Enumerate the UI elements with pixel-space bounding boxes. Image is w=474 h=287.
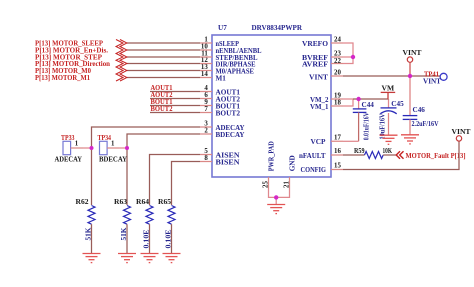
wire BOUT2 to pin 7 xyxy=(150,112,200,114)
svg-text:R62: R62 xyxy=(76,198,89,206)
svg-text:R64: R64 xyxy=(136,198,149,206)
wire BDECAY net from pin 2 down to R63 xyxy=(127,134,200,205)
resistor R65 xyxy=(168,206,175,254)
test point TP41 xyxy=(440,73,447,80)
wire AISEN net from pin 5 down to R64 xyxy=(150,155,201,206)
test point TP33 xyxy=(63,141,83,154)
svg-text:TP33: TP33 xyxy=(61,134,75,142)
svg-text:BDECAY: BDECAY xyxy=(216,131,246,139)
svg-text:51K: 51K xyxy=(86,227,93,241)
svg-text:DRV8834PWPR: DRV8834PWPR xyxy=(252,24,303,32)
svg-text:ADECAY: ADECAY xyxy=(55,155,83,163)
svg-text:VCP: VCP xyxy=(311,138,327,146)
svg-text:R59: R59 xyxy=(354,147,365,155)
svg-text:AVREF: AVREF xyxy=(302,60,329,68)
junction BDECAY/TP34 xyxy=(125,146,129,150)
wire R59 to off-page xyxy=(383,154,396,156)
svg-text:TP34: TP34 xyxy=(98,134,112,142)
svg-text:VINT: VINT xyxy=(423,77,441,85)
wire MOTOR_Direction to pin 12 xyxy=(127,63,200,65)
ground under R63 xyxy=(118,254,136,263)
junction VINT node xyxy=(408,74,412,78)
svg-text:BDECAY: BDECAY xyxy=(99,155,128,163)
wire BOUT1 to pin 9 xyxy=(150,105,200,107)
svg-text:17: 17 xyxy=(334,135,341,142)
svg-text:16: 16 xyxy=(334,148,341,155)
resistor R62 xyxy=(88,206,95,254)
svg-text:BISEN: BISEN xyxy=(216,158,241,166)
svg-text:18: 18 xyxy=(334,99,341,106)
wire CONFIG to VINT pullup xyxy=(343,141,459,169)
svg-text:CONFIG: CONFIG xyxy=(301,166,327,174)
svg-text:VINT: VINT xyxy=(403,48,422,57)
svg-text:VINT: VINT xyxy=(452,127,471,136)
junction C44 tap xyxy=(356,97,360,101)
wire MOTOR_M1 to pin 14 xyxy=(127,77,200,79)
svg-text:0.10E: 0.10E xyxy=(166,229,173,249)
svg-text:M1: M1 xyxy=(216,74,227,82)
resistor R64 xyxy=(146,206,153,254)
junction ADECAY/TP33 xyxy=(90,146,94,150)
off-page connector chevrons for MOTOR_ signals xyxy=(116,40,127,82)
svg-text:BOUT2: BOUT2 xyxy=(151,105,173,113)
svg-text:1: 1 xyxy=(111,141,115,148)
wire MOTOR_En-Dis to pin 10 xyxy=(127,49,200,51)
svg-text:VM: VM xyxy=(382,83,395,92)
capacitor C46 xyxy=(403,76,418,135)
svg-text:C46: C46 xyxy=(413,106,426,114)
svg-text:19: 19 xyxy=(334,92,341,99)
wire nFAULT to R59 xyxy=(343,154,365,156)
wire VINT net from pin 20 to TP41 xyxy=(343,75,440,77)
test point TP34 xyxy=(100,141,120,154)
power symbol VM xyxy=(381,92,396,99)
svg-text:2.2uF/16V: 2.2uF/16V xyxy=(412,121,439,128)
wire MOTOR_M0 to pin 13 xyxy=(127,70,200,72)
resistor R59 xyxy=(365,152,384,159)
svg-text:nFAULT: nFAULT xyxy=(299,152,326,160)
wire PWR_PAD/GND to ground xyxy=(269,189,290,205)
svg-text:BOUT2: BOUT2 xyxy=(216,109,241,117)
wire MOTOR_SLEEP to pin 1 xyxy=(127,42,200,44)
svg-text:51K: 51K xyxy=(121,227,128,241)
off-page connector chevron MOTOR_Fault xyxy=(396,151,403,159)
svg-text:GND: GND xyxy=(289,155,297,171)
svg-text:P[13] MOTOR_M1: P[13] MOTOR_M1 xyxy=(35,74,90,82)
svg-text:1: 1 xyxy=(75,141,79,148)
svg-text:C44: C44 xyxy=(362,101,375,109)
ground under C45 xyxy=(380,135,398,144)
wire VM net from pins 19/18 xyxy=(343,99,389,109)
svg-text:0.10E: 0.10E xyxy=(144,229,151,249)
svg-text:C45: C45 xyxy=(391,100,404,108)
power symbol VINT (bottom right) xyxy=(456,136,461,141)
IC U7 DRV8834PWPR body xyxy=(212,35,331,177)
ground under R62 xyxy=(83,254,101,263)
wire TP33 to ADECAY net xyxy=(83,147,92,149)
ground under R64 xyxy=(141,254,159,263)
wire TP34 to BDECAY net xyxy=(119,147,127,149)
power symbol VINT (top) xyxy=(407,57,412,76)
junction PWR_PAD/GND ground xyxy=(274,195,278,199)
wire MOTOR_STEP to pin 11 xyxy=(127,56,200,58)
svg-text:VREFO: VREFO xyxy=(302,40,328,48)
wire AOUT1 to pin 4 xyxy=(150,91,200,93)
svg-text:MOTOR_Fault P[13]: MOTOR_Fault P[13] xyxy=(406,152,466,160)
ground under U7 PWR_PAD/GND xyxy=(267,205,285,214)
svg-text:R65: R65 xyxy=(158,198,171,206)
junction VREFO/BVREF xyxy=(351,55,355,59)
wire AOUT2 to pin 6 xyxy=(150,98,200,100)
wire VREFO loop (pin 24 to pins 23/22) xyxy=(343,43,353,64)
wire ADECAY net from pin 3 down to R62 xyxy=(92,127,201,205)
ground under R65 xyxy=(163,254,181,263)
svg-text:0.01uF/16V: 0.01uF/16V xyxy=(363,112,370,140)
resistor R63 xyxy=(124,206,131,254)
ground under C46 xyxy=(401,135,419,144)
capacitor C45 (polarized) xyxy=(380,108,396,135)
svg-text:VINT: VINT xyxy=(309,73,328,81)
svg-text:10K: 10K xyxy=(383,147,393,155)
pin stubs of U7 (red pin leads) xyxy=(200,43,343,189)
capacitor C44 xyxy=(343,109,366,141)
svg-text:PWR_PAD: PWR_PAD xyxy=(268,141,276,171)
svg-text:15: 15 xyxy=(334,163,341,170)
svg-text:U7: U7 xyxy=(218,24,227,32)
wire BISEN net from pin 8 down to R65 xyxy=(172,162,201,206)
svg-text:R63: R63 xyxy=(114,198,127,206)
svg-text:VM_1: VM_1 xyxy=(310,103,329,111)
